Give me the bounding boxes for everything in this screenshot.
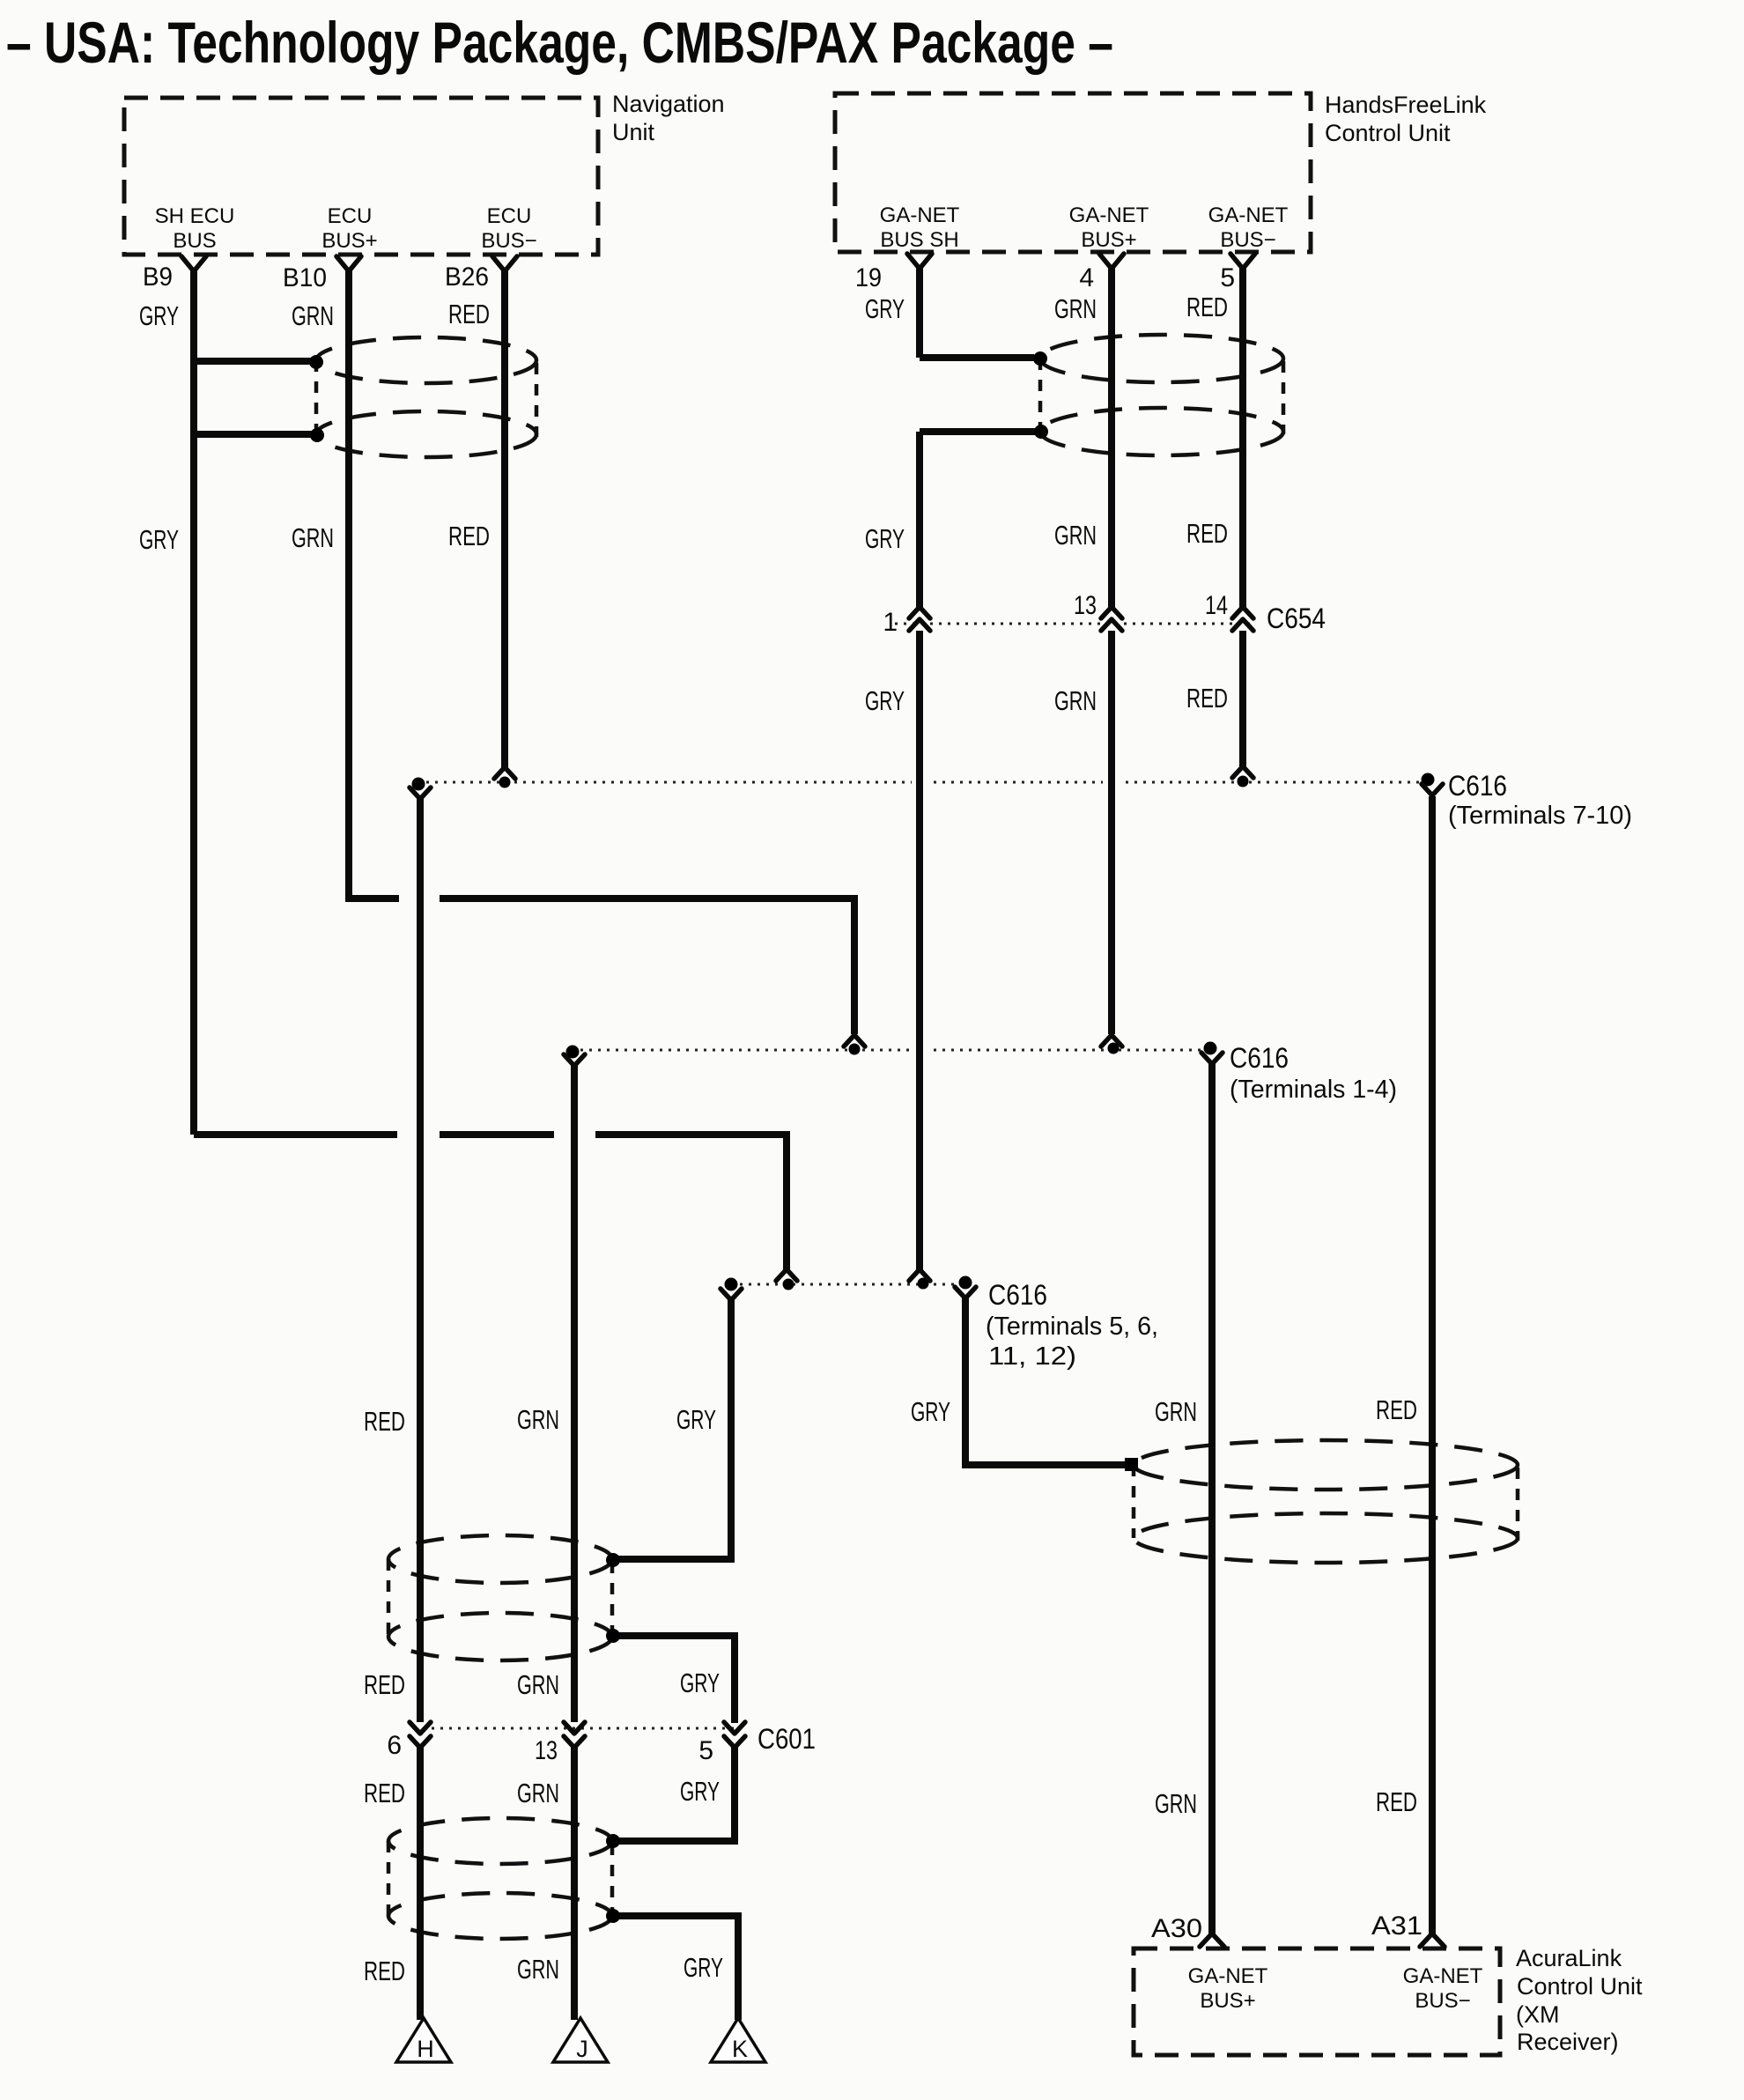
C616 7-10 junction to A31 wire [1422, 773, 1435, 787]
C616 5-6-11-12 junction to shield drain [959, 1276, 972, 1290]
svg-text:RED: RED [364, 1778, 405, 1808]
svg-text:C616: C616 [988, 1279, 1047, 1311]
junction dot navigation shield top [309, 355, 323, 369]
in-line connector C616 terminals 7-10 [418, 781, 1428, 784]
C601 pass-through chevrons GRY [724, 1722, 745, 1748]
svg-text:A31: A31 [1371, 1911, 1423, 1941]
wire RED from B26 (ECU BUS-) [501, 270, 508, 767]
svg-text:(Terminals 1-4): (Terminals 1-4) [1230, 1076, 1397, 1104]
svg-text:BUS−: BUS− [1220, 228, 1275, 252]
wire stub B9 to shield top [194, 358, 311, 365]
svg-text:GRN: GRN [517, 1954, 559, 1985]
svg-text:GRY: GRY [139, 300, 179, 331]
svg-text:(Terminals 5, 6,: (Terminals 5, 6, [986, 1312, 1158, 1341]
svg-text:RED: RED [1376, 1394, 1417, 1425]
svg-text:GRN: GRN [1054, 520, 1097, 551]
pin 5 terminal fork [1230, 254, 1255, 269]
svg-text:A30: A30 [1151, 1914, 1202, 1943]
AcuraLink control unit (XM receiver) box [1134, 1948, 1500, 2055]
svg-text:AcuraLink: AcuraLink [1516, 1945, 1622, 1971]
wire GRN from B10 (ECU BUS+) [349, 270, 854, 1034]
wire GRY from B9 (SH ECU BUS) [190, 270, 197, 1135]
svg-text:GRY: GRY [680, 1776, 720, 1807]
wire GRY from C616 down to lower shield [617, 1300, 731, 1559]
svg-text:GRN: GRN [517, 1778, 559, 1808]
junction dot lower shield 1 bottom [606, 1629, 620, 1643]
svg-text:GA-NET: GA-NET [880, 203, 960, 227]
connector H triangle [396, 2018, 451, 2062]
svg-text:13: 13 [1074, 591, 1097, 620]
wire GRY B9 horizontal run to C616 [194, 1135, 787, 1269]
svg-text:GA-NET: GA-NET [1208, 203, 1289, 227]
wire GRY from second shield to connector K [614, 1916, 738, 2020]
wire stub shield bottom [194, 431, 312, 438]
svg-text:13: 13 [535, 1736, 558, 1765]
svg-text:HandsFreeLink: HandsFreeLink [1325, 92, 1487, 118]
svg-text:GRN: GRN [292, 300, 334, 331]
svg-text:RED: RED [1186, 518, 1228, 549]
wire RED from C616 to connector H [417, 798, 424, 2020]
connector J triangle [553, 2018, 608, 2062]
wire RED from pin 5 (GA-NET BUS-) [1239, 267, 1246, 767]
svg-text:5: 5 [1220, 263, 1235, 292]
svg-text:GRY: GRY [684, 1952, 723, 1983]
junction square dot at AcuraLink shield [1125, 1458, 1138, 1471]
wire GRN from C616 to connector J [571, 1066, 578, 2020]
svg-text:ECU: ECU [328, 204, 373, 228]
svg-text:GRN: GRN [1054, 685, 1097, 716]
in-line connector C654 [895, 623, 1255, 625]
svg-text:Control Unit: Control Unit [1325, 120, 1451, 146]
svg-text:Receiver): Receiver) [1517, 2029, 1619, 2055]
svg-text:GRY: GRY [865, 293, 905, 324]
svg-text:GA-NET: GA-NET [1403, 1964, 1483, 1988]
svg-text:1: 1 [883, 608, 898, 637]
C616 1-4 terminating fork GRN from B10 [844, 1035, 865, 1046]
C601 pass-through chevrons GRN [564, 1722, 585, 1748]
svg-text:RED: RED [364, 1406, 405, 1437]
svg-text:GRN: GRN [1054, 293, 1097, 324]
svg-text:GRN: GRN [1155, 1396, 1197, 1427]
svg-text:RED: RED [1186, 292, 1228, 322]
svg-text:GRN: GRN [292, 522, 334, 553]
junction dot HandsFreeLink shield bottom [1034, 425, 1048, 439]
wire GRY shield drain to AcuraLink shield [965, 1298, 1125, 1465]
wire GRY through C601 to second shield [614, 1636, 735, 1841]
pin 19 terminal fork [907, 254, 932, 269]
svg-text:BUS: BUS [173, 229, 216, 253]
svg-text:RED: RED [364, 1669, 405, 1700]
svg-text:BUS+: BUS+ [1081, 228, 1136, 252]
svg-text:C601: C601 [757, 1723, 816, 1755]
svg-text:Navigation: Navigation [612, 91, 725, 117]
svg-text:BUS+: BUS+ [321, 229, 377, 253]
svg-text:RED: RED [364, 1956, 405, 1986]
wire GRN from pin 4 (GA-NET BUS+) [1108, 267, 1115, 1034]
svg-text:K: K [732, 2036, 748, 2062]
svg-text:(Terminals 7-10): (Terminals 7-10) [1448, 802, 1632, 830]
junction dot HandsFreeLink shield top [1033, 351, 1047, 366]
wire GRN from C616 to A30 [1208, 1064, 1216, 1934]
svg-text:Unit: Unit [612, 119, 655, 145]
svg-text:SH ECU: SH ECU [155, 204, 235, 228]
svg-text:GA-NET: GA-NET [1069, 203, 1149, 227]
svg-text:GRY: GRY [680, 1667, 720, 1698]
svg-text:B26: B26 [445, 262, 489, 292]
svg-text:BUS SH: BUS SH [880, 228, 958, 252]
pin A30 terminal fork [1200, 1934, 1224, 1947]
in-line connector C616 terminals 1-4 [572, 1049, 1210, 1052]
connector K triangle [711, 2018, 765, 2062]
svg-text:B9: B9 [143, 262, 173, 292]
C616 1-4 terminating fork GRN from HandsFreeLink [1101, 1035, 1122, 1046]
C616 1-4 junction to A30 wire [1204, 1042, 1217, 1055]
svg-text:19: 19 [855, 263, 882, 292]
wire GRY from pin 19 (GA-NET BUS SH) [920, 267, 1041, 1269]
svg-text:GRN: GRN [1155, 1788, 1197, 1819]
C654 pass-through chevrons RED [1232, 607, 1253, 631]
C616 5-6-11-12 terminating fork GRY from B9 [776, 1269, 797, 1281]
svg-text:– USA: Technology Package, CMB: – USA: Technology Package, CMBS/PAX Pack… [6, 10, 1113, 75]
C616 5-6-11-12 terminating fork GRY from HandsFreeLink [909, 1269, 930, 1281]
HandsFreeLink control unit box [835, 93, 1311, 252]
C616 7-10 terminating fork RED from HandsFreeLink [1232, 766, 1253, 778]
svg-text:RED: RED [1186, 683, 1228, 714]
svg-text:14: 14 [1205, 591, 1228, 620]
C616 5-6-11-12 junction to K wire [725, 1278, 738, 1291]
svg-text:GRN: GRN [517, 1669, 559, 1700]
svg-text:GRY: GRY [676, 1404, 716, 1435]
svg-text:4: 4 [1079, 263, 1094, 292]
shield cylinder lower-left upper [388, 1535, 612, 1660]
junction dot lower shield 1 top [606, 1553, 620, 1567]
svg-text:6: 6 [387, 1731, 402, 1760]
svg-text:BUS+: BUS+ [1200, 1989, 1255, 2013]
C616 1-4 junction to J wire [566, 1046, 580, 1059]
junction dot lower shield 2 bottom [606, 1909, 620, 1923]
svg-text:GA-NET: GA-NET [1188, 1964, 1268, 1988]
svg-text:C616: C616 [1230, 1042, 1289, 1074]
svg-text:(XM: (XM [1516, 2001, 1560, 2028]
svg-text:GRY: GRY [865, 685, 905, 716]
navigation unit box [124, 98, 598, 255]
svg-text:GRY: GRY [139, 524, 179, 555]
svg-text:RED: RED [448, 299, 490, 329]
svg-text:C616: C616 [1448, 770, 1507, 802]
svg-text:RED: RED [448, 521, 490, 551]
shield cylinder lower-left lower [388, 1818, 612, 1939]
svg-text:11, 12): 11, 12) [988, 1342, 1076, 1371]
C654 pass-through chevrons GRN [1101, 607, 1122, 631]
svg-text:BUS−: BUS− [1415, 1989, 1470, 2013]
pin A31 terminal fork [1420, 1934, 1445, 1947]
shield cylinder at AcuraLink unit [1134, 1440, 1518, 1563]
wire RED from C616 to A31 [1429, 796, 1436, 1934]
junction dot navigation shield bottom [310, 428, 324, 442]
pin B26 terminal fork [492, 256, 517, 271]
svg-text:H: H [417, 2036, 434, 2062]
pin B9 terminal fork [181, 256, 206, 271]
svg-text:BUS−: BUS− [481, 229, 536, 253]
svg-text:RED: RED [1376, 1786, 1417, 1817]
C601 pass-through chevrons RED [410, 1722, 431, 1748]
C616 7-10 terminating fork RED from B26 [494, 767, 515, 779]
svg-text:GRY: GRY [911, 1396, 950, 1427]
svg-text:GRN: GRN [517, 1404, 559, 1435]
svg-text:GRY: GRY [865, 523, 905, 554]
svg-text:5: 5 [698, 1736, 713, 1765]
in-line connector C601 [423, 1727, 735, 1730]
shield cylinder at HandsFreeLink unit [1040, 335, 1283, 455]
C616 7-10 junction to H wire [412, 778, 425, 791]
pin 4 terminal fork [1099, 254, 1124, 269]
pin B10 terminal fork [336, 256, 361, 271]
in-line connector C616 terminals 5,6,11,12 [731, 1283, 965, 1286]
svg-text:Control Unit: Control Unit [1517, 1973, 1643, 2000]
svg-text:J: J [576, 2036, 588, 2062]
svg-text:ECU: ECU [487, 204, 532, 228]
shield cylinder at navigation unit [316, 337, 536, 457]
C654 pass-through chevrons GRY [909, 607, 930, 631]
junction dot lower shield 2 top [606, 1834, 620, 1848]
svg-text:C654: C654 [1267, 603, 1326, 634]
svg-text:B10: B10 [283, 263, 327, 292]
